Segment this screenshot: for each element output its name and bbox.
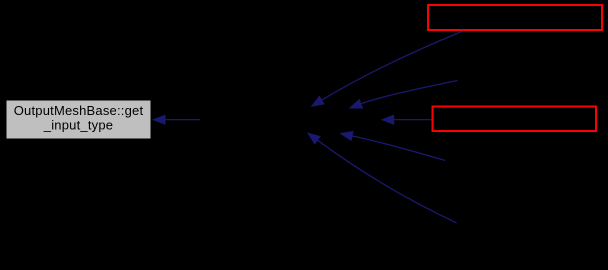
wire arrow 4: hidden caller to node A (339, 131, 445, 161)
wire arrow 3: middle red box to node A (381, 115, 432, 125)
node caller middle (red truncated box) (433, 107, 597, 132)
node caller top (red truncated box) (428, 5, 602, 30)
wire arrow node A to get_input_type (152, 115, 200, 125)
wire arrow 2: hidden caller to node A (349, 81, 458, 109)
wire arrow 5: hidden caller to node A (307, 132, 457, 223)
node A (invisible middle caller, black on black) (200, 108, 381, 132)
svg-text:_input_type: _input_type (43, 118, 113, 133)
svg-text:OutputMeshBase::get: OutputMeshBase::get (14, 103, 144, 118)
node OutputMeshBase::get_input_type (gray, current node) (6, 100, 151, 139)
wire arrow 1: top red box to node A (311, 31, 463, 107)
